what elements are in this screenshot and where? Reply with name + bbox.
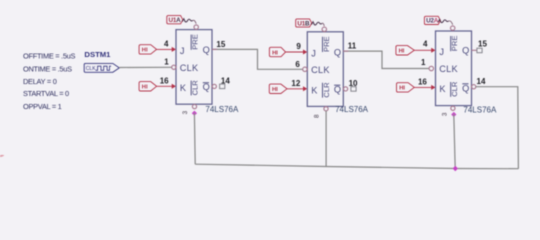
Q pin 15 stub wire (U2A) <box>472 49 478 51</box>
body box U1B <box>307 32 343 107</box>
svg-text:Q: Q <box>334 85 341 95</box>
svg-text:J: J <box>180 46 185 56</box>
CLR bubble U1A (bottom) <box>192 105 196 109</box>
parameter list text block <box>23 52 75 112</box>
svg-text:1: 1 <box>421 58 426 67</box>
HI flag U1B J input <box>269 47 285 56</box>
svg-text:U2A: U2A <box>426 18 439 25</box>
vertical wire rail up to U1B CLR <box>325 111 327 167</box>
clock waveform glyph <box>96 66 112 70</box>
red wire U1A J input to pin <box>157 48 173 50</box>
junction dot below U1A CLR <box>192 111 197 116</box>
svg-text:15: 15 <box>478 40 487 49</box>
bottom rail wire (right to left) <box>195 164 518 169</box>
svg-text:4: 4 <box>423 40 428 49</box>
svg-text:CLR: CLR <box>322 82 331 98</box>
CLR bubble U2A (bottom) <box>451 106 455 110</box>
Qbar bubble U1A <box>212 84 216 88</box>
svg-text:4: 4 <box>164 39 169 48</box>
red wire U1A K input to pin <box>157 85 173 87</box>
svg-text:ONTIME = .5uS: ONTIME = .5uS <box>23 64 72 73</box>
svg-text:Q: Q <box>203 45 210 55</box>
feedback wire: U2A Qbar (pin 14) right then down to bottom rail <box>476 87 519 169</box>
unconnected preset pin squiggle, pin 7 <box>311 22 324 26</box>
arrowhead at U1A K input pin <box>172 84 176 89</box>
svg-text:1: 1 <box>164 58 169 67</box>
svg-text:DSTM1: DSTM1 <box>84 50 111 59</box>
svg-text:Q: Q <box>334 47 341 57</box>
svg-text:J: J <box>439 47 444 57</box>
svg-text:HI: HI <box>142 85 148 91</box>
junction dot on bottom rail <box>453 166 458 171</box>
svg-text:J: J <box>311 49 316 59</box>
vertical wire rail up to U2A CLR <box>454 114 455 169</box>
wire U1B Q (pin 11) to U2A CLK (pin 1) <box>343 51 429 68</box>
Qbar bubble U2A <box>472 85 476 89</box>
svg-text:HI: HI <box>399 86 405 92</box>
CLK2 edge bubble <box>303 67 307 71</box>
svg-text:74LS76A: 74LS76A <box>335 105 369 114</box>
CLR bubble U1B (bottom) <box>324 107 328 111</box>
svg-text:CLK: CLK <box>311 65 330 75</box>
svg-text:PRE: PRE <box>191 34 200 50</box>
svg-text:14: 14 <box>477 77 486 86</box>
CLK1 edge bubble <box>172 65 176 69</box>
arrowhead at U2A K input pin <box>431 85 435 90</box>
svg-text:HI: HI <box>142 48 148 54</box>
svg-text:Q: Q <box>203 82 210 92</box>
svg-text:CLK: CLK <box>180 63 199 73</box>
unconnected pin 15 square pad U2A <box>477 48 482 53</box>
HI flag U2A J input <box>396 46 414 55</box>
svg-text:OFFTIME = .5uS: OFFTIME = .5uS <box>23 52 75 61</box>
flip-flop U2A 74LS76A <box>436 31 472 106</box>
svg-text:6: 6 <box>295 60 300 69</box>
reference designator tag U1B <box>296 19 312 27</box>
vertical wire rail up to U1A CLR <box>193 113 196 164</box>
body box U2A <box>436 31 472 106</box>
svg-text:16: 16 <box>418 77 427 86</box>
arrowhead at U1B K input pin <box>303 86 307 91</box>
svg-text:74LS76A: 74LS76A <box>205 105 239 114</box>
reference designator tag U2A <box>424 16 440 24</box>
svg-text:HI: HI <box>272 50 278 56</box>
HI flag U1B K input <box>269 84 287 93</box>
svg-text:PRE: PRE <box>322 36 331 52</box>
DSTM1 symbol body <box>84 63 119 72</box>
reference designator tag U1A <box>167 16 183 24</box>
HI flag U1A J input <box>139 45 156 54</box>
Qbar bubble U1B <box>344 87 348 91</box>
unconnected pin 10 square pad U1B <box>351 87 356 92</box>
unconnected preset pin squiggle, pin 2 <box>438 19 453 24</box>
wire DSTM1 to U1A CLK <box>119 66 171 68</box>
red wire U1B K input to pin <box>287 88 304 90</box>
arrowhead at U2A J input pin <box>431 48 435 53</box>
svg-text:3: 3 <box>182 110 189 114</box>
svg-text:HI: HI <box>272 87 278 93</box>
svg-text:U1A: U1A <box>169 17 182 24</box>
arrowhead at U1A J input pin <box>172 47 176 52</box>
svg-text:K: K <box>180 83 187 93</box>
red wire U2A K input to pin <box>414 86 432 88</box>
svg-text:HI: HI <box>399 49 405 55</box>
svg-text:OPPVAL = 1: OPPVAL = 1 <box>23 102 62 111</box>
body box U1A <box>176 30 212 105</box>
red wire U2A J input to pin <box>414 49 432 51</box>
svg-text:STARTVAL = 0: STARTVAL = 0 <box>23 89 69 98</box>
svg-text:CLR: CLR <box>450 81 459 97</box>
HI flag U2A K input <box>397 83 415 92</box>
svg-text:74LS76A: 74LS76A <box>463 106 497 115</box>
PRE bubble U1B (top) <box>322 27 326 31</box>
red wire U1B J input to pin <box>286 51 304 53</box>
svg-text:9: 9 <box>296 42 301 51</box>
svg-text:8: 8 <box>314 114 321 118</box>
HI flag U1A K input <box>139 82 156 91</box>
svg-text:U1B: U1B <box>297 20 310 27</box>
wire U1A Q (pin 15) to U1B CLK (pin 6) <box>212 49 303 69</box>
junction dot below U2A CLR <box>451 112 456 117</box>
CLK3 edge bubble <box>429 66 433 70</box>
svg-text:3: 3 <box>441 112 448 116</box>
PRE bubble U1A (top) <box>194 25 198 29</box>
svg-text:PRE: PRE <box>450 36 459 52</box>
digital stimulus DSTM1 <box>84 50 119 72</box>
svg-text:12: 12 <box>291 79 300 88</box>
svg-text:CLK: CLK <box>86 66 96 72</box>
svg-text:CLK: CLK <box>439 64 458 74</box>
flip-flop U1A 74LS76A <box>176 30 212 105</box>
unconnected preset pin squiggle, pin 2 <box>182 19 196 24</box>
svg-text:15: 15 <box>216 40 225 49</box>
svg-text:CLR: CLR <box>191 80 200 96</box>
unconnected pin 14 square pad U1A <box>220 84 225 89</box>
svg-text:11: 11 <box>348 42 357 51</box>
svg-text:K: K <box>439 84 446 94</box>
svg-text:16: 16 <box>160 77 169 86</box>
PRE bubble U2A (top) <box>451 26 455 30</box>
svg-text:Q: Q <box>462 83 469 93</box>
svg-text:DELAY = 0: DELAY = 0 <box>23 77 57 86</box>
svg-text:Q: Q <box>462 46 469 56</box>
arrowhead at U1B J input pin <box>303 50 307 55</box>
flip-flop U1B 74LS76A <box>307 32 343 107</box>
svg-text:K: K <box>311 85 318 95</box>
scan fleck at left margin <box>0 155 4 157</box>
